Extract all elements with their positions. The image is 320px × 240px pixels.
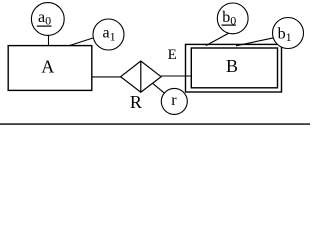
entity B inner rect [191,48,277,88]
wire a0 to A [48,22,50,47]
attribute a0 circle [31,3,64,36]
wire A to R [91,76,122,78]
wire b1 to B [236,35,288,46]
wire b0 to B [206,33,230,46]
wire R to B [160,75,194,77]
svg-text:R: R [130,92,142,112]
svg-text:r: r [171,92,177,109]
wire R to r [152,83,174,101]
attribute r circle [161,88,187,114]
entity B outer rect (weak entity) [186,44,282,92]
attribute b1 circle [273,18,304,49]
attribute b0 circle [217,3,248,34]
attribute a1 circle [93,19,124,50]
relationship R diamond [121,61,162,92]
svg-text:E: E [168,47,177,63]
entity A [8,46,92,91]
svg-text:B: B [226,56,238,76]
bottom rule [0,123,310,125]
wire a1 to A [67,33,109,47]
svg-text:A: A [41,57,54,77]
diamond internal vertical line [140,61,142,92]
